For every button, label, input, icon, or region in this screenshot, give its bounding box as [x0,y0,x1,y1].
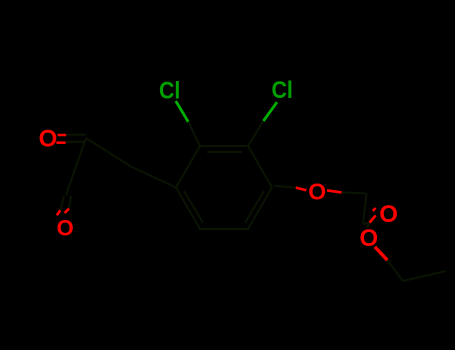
svg-text:O: O [359,225,378,252]
benzene ring [176,146,272,229]
bond ether O red stub right [327,190,342,192]
bond ester C=O red stubs [370,208,376,223]
bond C-Cl green half right [263,102,277,121]
wire left chain [66,138,176,195]
bond C=O red stubs top-left ketone [56,135,66,143]
wire O-CH2 dark half [342,192,367,193]
svg-text:O: O [57,216,74,241]
wire C-Cl dark half right [248,121,263,146]
wire ethyl chain dark [387,260,446,281]
bond C-Cl green half left [176,101,188,122]
svg-text:O: O [39,126,58,153]
wire CH2 to ester C [363,194,367,225]
svg-text:O: O [379,201,398,228]
bond ester O-CH2 red half [375,247,387,260]
bond ether O red stub left [296,188,307,191]
svg-text:Cl: Cl [272,76,293,103]
svg-text:Cl: Cl [159,76,180,103]
wire ring to ether O dark half [274,186,296,188]
bond C=O red stubs lower-left ketone [57,209,69,216]
svg-text:O: O [308,178,326,204]
wire C-Cl dark half left [188,122,200,146]
wire lower ketone C=O dark halves [60,196,71,210]
wire left ketone C=O dark halves [66,135,86,142]
wire ester C=O dark halves [363,221,373,227]
